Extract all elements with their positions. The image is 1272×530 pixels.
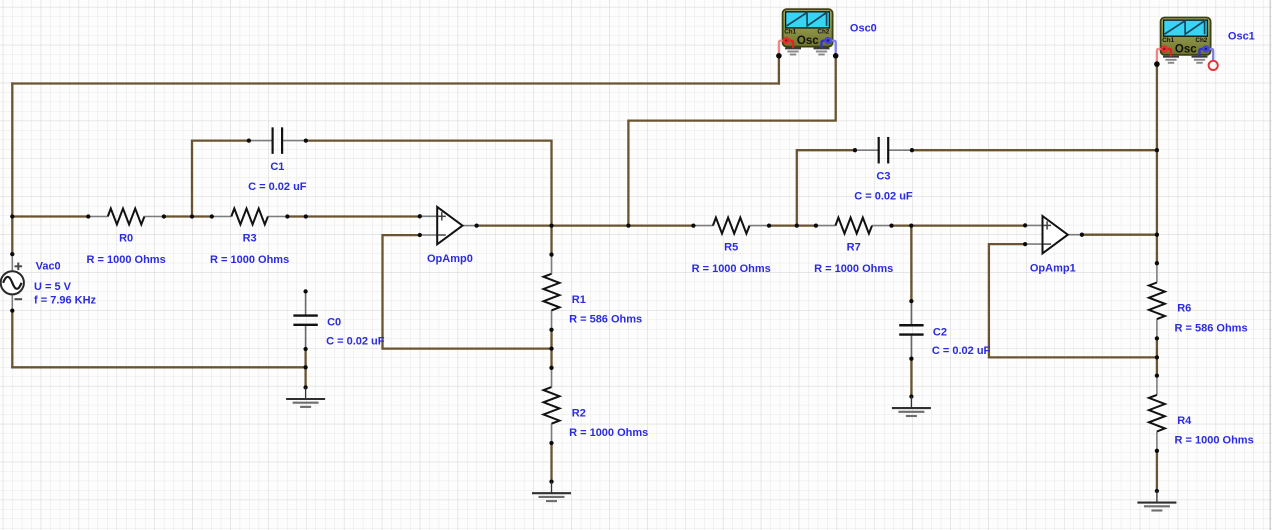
label Osc0 [850,22,877,34]
svg-text:Osc1: Osc1 [1228,31,1255,43]
svg-text:Ch1: Ch1 [1162,37,1174,44]
wire R6 top stub [1156,235,1158,264]
op-amp OpAmp1 [1023,216,1084,253]
svg-text:R0: R0 [119,232,133,244]
label C1 value [248,181,307,193]
label Vac0 value U [34,281,72,293]
svg-text:U = 5 V: U = 5 V [34,281,72,293]
svg-text:C = 0.02 uF: C = 0.02 uF [854,191,913,203]
svg-text:R = 1000 Ohms: R = 1000 Ohms [569,427,648,439]
svg-text:R = 1000 Ohms: R = 1000 Ohms [1175,435,1254,447]
label Vac0 value f [34,295,97,307]
resistor R2 [544,366,560,446]
node I (C0 bottom rail) [303,365,307,369]
label C3 name [876,171,890,183]
node C (C0 tap) [304,214,308,218]
wire Osc1 vertical mid [1156,150,1158,235]
AC source Vac0 [1,252,24,313]
wire R1-R2 link [550,330,552,368]
svg-text:Vac0: Vac0 [36,260,61,272]
wire C3 branch right [912,149,1157,151]
node J (C3 right / Osc1) [1155,148,1159,152]
ground Osc1 Ch2 [1192,57,1208,63]
wire left vertical (source bottom) [11,311,13,368]
label R2 value [569,427,648,439]
svg-text:R7: R7 [847,242,861,254]
wire OpAmp1 inverting feedback [989,244,1157,357]
resistor R4 [1149,373,1165,452]
capacitor C0 [293,289,317,351]
node D (OpAmp0 out / C1) [549,223,553,227]
svg-text:R = 1000 Ohms: R = 1000 Ohms [87,254,166,266]
svg-text:R = 586 Ohms: R = 586 Ohms [1175,322,1248,334]
probe Osc1 Ch2 lead [1200,45,1214,60]
svg-text:Osc: Osc [797,35,819,47]
node Osc1 Ch2 open terminal [1209,61,1218,70]
svg-text:R3: R3 [243,232,257,244]
wire C1 branch left [192,141,249,217]
svg-text:C = 0.02 uF: C = 0.02 uF [932,345,991,357]
node A (source/main row) [10,214,14,218]
wire OpAmp1 out link [1082,234,1157,236]
label R2 name [572,407,586,419]
wire Osc0 Ch2 net [628,56,835,226]
resistor R0 [86,209,166,225]
svg-text:f = 7.96 KHz: f = 7.96 KHz [34,295,97,307]
wire left vertical (source top) [11,84,13,255]
capacitor C3 [853,137,914,164]
label C2 name [933,326,947,338]
label Vac0 name [36,260,61,272]
node Osc0 Ch2 terminal [833,53,839,59]
wire C1 branch right [306,141,552,226]
svg-text:Osc: Osc [1175,43,1197,55]
label C0 value [326,335,385,347]
resistor R6 [1149,261,1165,340]
svg-text:R = 1000 Ohms: R = 1000 Ohms [814,263,893,275]
label R4 name [1177,415,1192,427]
label R7 name [847,242,861,254]
wire C0 lower stub [304,349,306,388]
label R0 name [119,232,133,244]
oscilloscope Osc0 body [783,9,833,47]
node Osc1 Ch1 terminal [1154,61,1160,67]
node L (R6/R4 feedback) [1155,355,1159,359]
wire R2 ground stub [550,443,552,482]
label R0 value [87,254,166,266]
svg-text:R5: R5 [724,242,738,254]
svg-text:C2: C2 [933,326,947,338]
svg-text:Ch2: Ch2 [817,29,829,36]
svg-text:C3: C3 [876,171,890,183]
wire C2 top stub [910,226,912,301]
capacitor C1 [247,127,308,154]
capacitor C2 [899,299,923,361]
node K (OpAmp1 out / Osc1) [1155,233,1159,237]
svg-text:R = 586 Ohms: R = 586 Ohms [569,314,642,326]
wire top net [12,82,779,84]
ground Osc0 Ch2 [814,48,830,54]
svg-text:R4: R4 [1177,415,1192,427]
node B (R0-C1 tap) [190,214,194,218]
label R3 name [243,232,257,244]
wire out row seg C [892,224,1026,226]
svg-text:C0: C0 [327,317,341,329]
ground GND R4 [1137,489,1176,511]
ground Osc0 Ch1 [785,48,801,54]
svg-text:C1: C1 [270,161,284,173]
resistor R7 [814,218,894,234]
wire R6-R4 link [1156,338,1158,376]
wire C3 branch left [797,150,855,225]
wire Osc1 Ch1 drop [1156,65,1158,151]
label C1 name [270,161,284,173]
wire OpAmp0 inverting feedback [383,235,552,349]
label R7 value [814,263,893,275]
op-amp OpAmp0 [418,207,479,244]
node G (C2 tap) [909,223,913,227]
node Osc0 Ch1 terminal [776,53,782,59]
node E (OpAmp0 out / Osc0) [626,223,630,227]
oscilloscope Osc1 body [1161,18,1211,56]
svg-text:Ch1: Ch1 [784,29,796,36]
label OpAmp0 [427,253,473,265]
probe Osc1 Ch1 lead [1157,45,1171,62]
wire OpAmp0 out row seg A [476,224,693,226]
probe Osc0 Ch2 lead [822,37,836,54]
svg-text:R = 1000 Ohms: R = 1000 Ohms [210,254,289,266]
wire R1 top stub [550,226,552,255]
label Osc1 [1228,31,1255,43]
resistor R3 [210,209,290,225]
ground GND R2 [532,479,571,501]
node H (R1/R2 feedback) [549,346,553,350]
label R1 value [569,314,642,326]
wire main row seg A [12,215,88,217]
label C3 value [854,191,913,203]
svg-text:OpAmp0: OpAmp0 [427,253,473,265]
svg-text:Ch2: Ch2 [1195,37,1207,44]
ground Osc1 Ch1 [1163,57,1179,63]
resistor R5 [691,218,771,234]
scrollbar edge [1269,0,1271,530]
svg-text:C = 0.02 uF: C = 0.02 uF [248,181,307,193]
label R5 value [692,263,771,275]
label C0 name [327,317,341,329]
wire out row seg B [769,224,816,226]
label R5 name [724,242,738,254]
wire C2 ground stub [910,359,912,397]
label R6 name [1177,303,1191,315]
svg-text:OpAmp1: OpAmp1 [1030,263,1076,275]
label R1 name [572,294,586,306]
wire bottom rail [12,366,305,368]
svg-text:C = 0.02 uF: C = 0.02 uF [326,335,385,347]
label R4 value [1175,435,1254,447]
wire main row seg C [287,215,419,217]
ground GND C2 [892,394,931,416]
label R3 value [210,254,289,266]
ground GND C0 [286,385,325,407]
label OpAmp1 [1030,263,1076,275]
wire R4 ground stub [1156,450,1158,491]
resistor R1 [544,252,560,331]
svg-text:R = 1000 Ohms: R = 1000 Ohms [692,263,771,275]
wire Osc0 Ch1 net [778,56,780,84]
svg-text:R1: R1 [572,294,586,306]
svg-text:R6: R6 [1177,303,1191,315]
node F (C3 tap) [795,223,799,227]
probe Osc0 Ch1 lead [779,37,793,54]
wire main row seg B [164,215,212,217]
label R6 value [1175,322,1248,334]
svg-text:Osc0: Osc0 [850,22,877,34]
label C2 value [932,345,991,357]
svg-text:R2: R2 [572,407,586,419]
